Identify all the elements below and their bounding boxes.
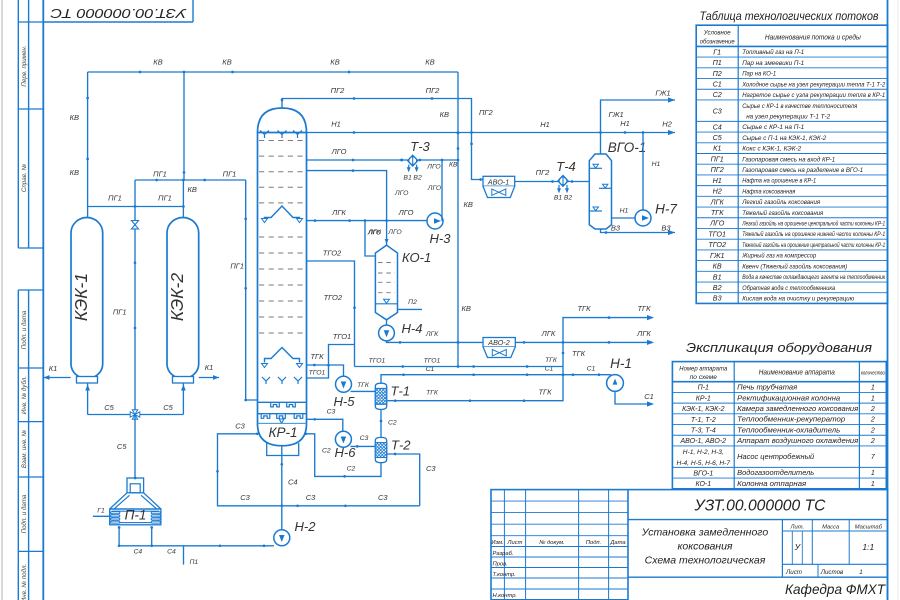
svg-text:ПГ1: ПГ1 [153,170,167,179]
svg-text:С3: С3 [240,493,250,502]
svg-text:Газопаровая смесь на вход КР-1: Газопаровая смесь на вход КР-1 [742,155,835,163]
wire ПГ2 АВО-1 to Т-4 to ВГО-1 [515,181,590,183]
КР-1 chevron collector upper [265,206,300,222]
wire ЛГК branch into КО-1 [365,221,375,256]
svg-text:Н-1: Н-1 [610,356,632,371]
svg-text:Камера замедленного коксования: Камера замедленного коксования [737,405,858,413]
wire В3 sour water out [601,229,676,233]
svg-text:С5: С5 [163,403,173,412]
svg-text:ТГО1: ТГО1 [424,358,441,365]
ВГО-1 internal weirs [589,167,602,169]
title block (основная надпись) [491,490,888,600]
wire П1 steam stub [183,546,185,565]
КР-1 bubble-cap tray 1 [258,401,307,403]
svg-text:Номер аппарата: Номер аппарата [679,366,727,373]
svg-text:ПГ2: ПГ2 [536,168,551,177]
svg-text:ТГО1: ТГО1 [309,370,326,377]
column КР-1 rectification column shell [258,108,307,424]
wire С3 from Т-2 to С3 header [387,454,420,506]
svg-text:КР-1: КР-1 [269,425,298,440]
svg-text:ТГО1: ТГО1 [333,332,351,341]
wire С2 Т-2 bottom back to КР-1 [307,434,382,477]
svg-text:В3: В3 [611,224,621,233]
svg-text:Т-3, Т-4: Т-3, Т-4 [691,427,716,434]
wire С1 cold feed from Н-1 [615,391,653,404]
svg-text:П1: П1 [190,559,199,566]
separator ВГО-1 water-gas separator [589,154,611,229]
svg-text:Кафедра ФМХТ: Кафедра ФМХТ [785,582,887,597]
svg-text:Т-2: Т-2 [391,438,411,453]
wire Н1 naphtha reflux line [307,132,676,134]
svg-text:ГЖ1: ГЖ1 [609,110,624,119]
svg-text:Пар на змеевики П-1: Пар на змеевики П-1 [742,60,804,67]
svg-text:С5: С5 [104,403,114,412]
svg-text:ТГК: ТГК [426,390,439,397]
svg-text:ЛГК: ЛГК [541,329,556,338]
КР-1 lower spray nozzles [262,377,270,384]
svg-text:С4: С4 [288,478,298,487]
svg-text:Г1: Г1 [713,47,721,56]
svg-text:ПГ1: ПГ1 [223,170,237,179]
svg-text:Таблица технологических потоко: Таблица технологических потоков [700,9,879,23]
svg-text:С5: С5 [117,442,127,451]
svg-text:ГЖ1: ГЖ1 [655,89,670,98]
svg-text:Н-3: Н-3 [430,231,452,246]
svg-text:Наименование аппарата: Наименование аппарата [759,370,835,377]
svg-text:П2: П2 [408,299,417,306]
svg-text:Масса: Масса [822,524,840,530]
pump Н-6 centrifugal [335,431,351,447]
valve on ПГ1 blowdown line [132,221,139,229]
wire ПГ1 riser to КР-1 feed inlet [246,180,258,400]
wire КВ drop to КЭК-1 overhead [87,72,89,207]
svg-text:1: 1 [871,395,875,402]
svg-text:КВ: КВ [440,110,449,119]
svg-text:Н-5: Н-5 [334,394,356,409]
svg-text:Н-6: Н-6 [335,445,357,460]
wire С1 from Т-1 top to Н-1 [381,375,611,384]
svg-text:УЗТ.00.000000 ТС: УЗТ.00.000000 ТС [694,498,826,515]
wire КВ drop to КЭК-2 overhead [183,72,185,180]
svg-text:КЭК-2: КЭК-2 [167,273,187,321]
svg-text:С3: С3 [306,493,316,502]
КР-1 trays middle section (dashed) [259,236,305,238]
wire КО-1 bottoms to Н-4 [386,320,388,325]
svg-text:ТГО2: ТГО2 [324,293,343,302]
wire ГЖ1 gas to compressor [601,100,676,154]
wire К1 coke outlet КЭК-1 [44,377,71,379]
air cooler АВО-2 [483,338,515,347]
svg-text:Инв. № дубл.: Инв. № дубл. [21,376,28,414]
svg-text:УЗТ.00.000000 ТС: УЗТ.00.000000 ТС [50,6,188,21]
svg-text:КВ: КВ [70,168,79,177]
vessel КЭК-1 coke drum [71,218,103,379]
wire С4 header to furnace П-1 [119,545,274,547]
svg-text:Подп.: Подп. [586,540,601,546]
svg-text:2: 2 [870,417,875,424]
svg-text:Справ. №: Справ. № [21,164,28,192]
svg-text:ТГК: ТГК [538,388,552,397]
svg-text:ПГ2: ПГ2 [711,165,724,174]
svg-text:Насос центробежный: Насос центробежный [737,453,814,461]
svg-text:Т-3: Т-3 [410,139,430,154]
wire Н-7 discharge riser [642,133,644,211]
svg-text:обозначение: обозначение [700,38,735,46]
svg-text:Т.контр.: Т.контр. [493,572,516,578]
svg-text:Сырье с КР-1 на П-1: Сырье с КР-1 на П-1 [742,124,804,131]
svg-text:Кокс с КЭК-1, КЭК-2: Кокс с КЭК-1, КЭК-2 [742,146,801,153]
КР-1 bottom head [258,424,307,446]
svg-text:ТГК: ТГК [357,382,370,389]
svg-text:В2: В2 [413,175,422,182]
wire КЭК-2 overhead riser [182,180,184,219]
svg-text:Т-4: Т-4 [556,159,576,174]
svg-text:П1: П1 [713,58,722,67]
svg-text:КВ: КВ [330,58,339,67]
svg-text:1:1: 1:1 [862,542,874,552]
frame border column lines [17,0,19,248]
vessel КЭК-2 coke drum [167,218,199,379]
svg-text:Масштаб: Масштаб [855,524,883,530]
svg-text:1: 1 [871,481,875,488]
wire КВ main drop (right) [457,72,459,367]
pump Н-4 centrifugal [379,325,395,341]
svg-text:В3: В3 [661,224,671,233]
heat exchanger Т-1 (recuperator) [375,383,386,409]
КР-1 bubble-cap tray 2 [258,413,307,415]
svg-text:ПГ1: ПГ1 [113,308,127,317]
svg-text:Теплообменник-охладитель: Теплообменник-охладитель [737,426,840,434]
frame cell: Инв. № дубл. [18,421,43,423]
svg-text:Перв. примен.: Перв. примен. [21,45,28,86]
page edge (left/right faint) [1,0,3,600]
wire С5 down to furnace П-1 [134,415,136,479]
svg-text:Подп. и дата: Подп. и дата [21,494,28,533]
svg-text:ПГ1: ПГ1 [711,154,724,163]
svg-text:ЛГК: ЛГК [331,208,346,217]
svg-text:Н-4, Н-5, Н-6, Н-7: Н-4, Н-5, Н-6, Н-7 [677,460,731,467]
КР-1 top spray nozzles [260,131,269,139]
svg-text:ГЖ1: ГЖ1 [710,251,725,260]
svg-text:ТГК: ТГК [637,304,651,313]
wire ПГ1 header from КЭК-1 [88,206,184,208]
svg-text:Пар на КО-1: Пар на КО-1 [742,71,776,78]
svg-text:Нафта коксованная: Нафта коксованная [742,188,795,195]
svg-text:Г1: Г1 [97,508,105,515]
frame cell: Подп. и дата (lower) [18,550,43,552]
svg-text:П2: П2 [713,69,722,78]
svg-text:Н-7: Н-7 [655,202,677,217]
svg-text:С1: С1 [587,366,596,373]
svg-text:В2: В2 [564,195,573,202]
svg-text:Лист: Лист [785,569,802,576]
svg-text:Водогазоотделитель: Водогазоотделитель [737,469,814,477]
svg-text:ТГО1: ТГО1 [369,358,386,365]
frame cell: Перв. примен. [18,21,43,23]
svg-text:ПГ1: ПГ1 [108,194,122,203]
svg-text:С3: С3 [426,464,436,473]
svg-text:Т-1, Т-2: Т-1, Т-2 [691,417,716,424]
svg-text:КО-1: КО-1 [695,481,711,488]
svg-text:Схема технологическая: Схема технологическая [645,555,766,567]
svg-text:Н-4: Н-4 [402,321,423,336]
svg-text:количество: количество [861,371,885,377]
svg-text:Топливный газ на П-1: Топливный газ на П-1 [742,48,804,56]
svg-text:Н1: Н1 [713,176,722,185]
svg-text:КЭК-1: КЭК-1 [71,273,91,321]
svg-text:Взам. инв. №: Взам. инв. № [21,430,28,469]
svg-text:Н.контр.: Н.контр. [493,593,518,599]
svg-text:С5: С5 [713,133,723,142]
svg-text:Нагретое сырье с узла рекупера: Нагретое сырье с узла рекуперации тепла … [742,92,885,99]
svg-text:Н1: Н1 [331,120,341,129]
svg-text:К1: К1 [49,364,58,373]
svg-text:КО-1: КО-1 [402,250,431,265]
svg-text:С4: С4 [133,549,142,556]
svg-text:Н2: Н2 [713,187,722,196]
4-way switch valve on С5 [130,410,140,420]
svg-text:КР-1: КР-1 [696,395,711,402]
svg-text:ВГО-1: ВГО-1 [693,470,713,477]
wire ЛГО draw to Т-3 / КВ [307,159,459,161]
pump Н-7 centrifugal [635,210,651,226]
svg-text:КЭК-1, КЭК-2: КЭК-1, КЭК-2 [682,406,725,413]
svg-text:ЛГО: ЛГО [426,164,441,171]
svg-text:Т-1: Т-1 [391,384,411,399]
wire ТГО2 pumparound draw [307,261,355,367]
svg-text:Сырье с КР-1 в качестве теплон: Сырье с КР-1 в качестве теплоносителя [742,103,857,110]
svg-text:К1: К1 [205,363,214,372]
svg-text:Теплообменник-рекуператор: Теплообменник-рекуператор [737,416,845,424]
pump Н-2 centrifugal [274,530,290,546]
svg-text:К1: К1 [713,144,721,153]
svg-text:С3: С3 [713,106,722,115]
svg-text:на узел рекуперации Т-1 Т-2: на узел рекуперации Т-1 Т-2 [746,114,830,121]
svg-text:Холодное сырье на узел рекупер: Холодное сырье на узел рекуперации тепла… [741,80,885,88]
svg-text:КВ: КВ [70,113,79,122]
svg-text:ПГ2: ПГ2 [426,86,441,95]
svg-text:ЛГО: ЛГО [394,190,409,197]
svg-text:Пров.: Пров. [493,561,508,567]
svg-text:С3: С3 [360,435,369,442]
top-left rotated document number box УЗТ.00.000000 ТС [43,21,193,23]
svg-text:АВО-1, АВО-2: АВО-1, АВО-2 [679,438,726,445]
svg-text:ЛГО: ЛГО [331,147,347,156]
svg-text:ЛГК: ЛГК [710,197,725,206]
svg-text:Н-1, Н-2, Н-3,: Н-1, Н-2, Н-3, [683,449,724,456]
svg-text:Легкий газойль коксования: Легкий газойль коксования [741,198,820,206]
svg-text:АВО-2: АВО-2 [487,338,509,347]
svg-text:Нафта на орошение в КР-1: Нафта на орошение в КР-1 [742,178,816,185]
svg-text:В2: В2 [713,283,722,292]
heat exchanger Т-4 (cooler) [558,176,568,187]
svg-text:Кислая вода на очистку и рекуп: Кислая вода на очистку и рекуперацию [742,294,854,302]
svg-text:ЛГК: ЛГК [367,229,381,236]
svg-text:ТГО1: ТГО1 [708,229,726,238]
svg-text:Наименования потока и среды: Наименования потока и среды [765,34,862,42]
svg-text:С2: С2 [713,90,722,99]
svg-text:КВ: КВ [222,58,231,67]
svg-text:2: 2 [870,438,875,445]
svg-text:КВ: КВ [188,185,197,194]
svg-text:Н1: Н1 [620,119,630,128]
svg-text:Н1: Н1 [620,208,629,215]
svg-text:Легкий газойль на орошение цен: Легкий газойль на орошение центральной ч… [741,220,885,228]
heat exchanger Т-3 (cooler) [408,155,418,166]
svg-text:С2: С2 [322,448,331,455]
svg-text:1: 1 [871,470,875,477]
wire Н-3 discharge riser to Т-3 line [441,160,443,221]
svg-text:коксования: коксования [677,541,732,553]
svg-text:ТГК: ТГК [310,352,324,361]
svg-text:С3: С3 [235,422,245,431]
КР-1 chevron collector lower [265,348,300,363]
svg-text:С2: С2 [388,420,397,427]
svg-text:В1: В1 [403,175,412,182]
svg-text:ЛГК: ЛГК [425,331,439,338]
svg-text:В3: В3 [713,294,722,303]
pump Н-1 centrifugal [607,375,624,392]
svg-text:Квенч (Тяжелый газойль коксова: Квенч (Тяжелый газойль коксования) [742,262,847,270]
pump Н-3 centrifugal [427,213,443,229]
wire С2 Т-1 bottom to Т-2 top [380,410,382,438]
svg-text:ТГК: ТГК [572,349,586,358]
svg-text:ПГ1: ПГ1 [230,262,244,271]
svg-text:Н2: Н2 [662,120,672,129]
svg-text:ПГ2: ПГ2 [331,86,346,95]
svg-text:АВО-1: АВО-1 [487,177,509,186]
pump Н-5 centrifugal [336,376,352,392]
svg-text:Колонна отпарная: Колонна отпарная [737,481,806,488]
svg-text:ВГО-1: ВГО-1 [608,140,646,155]
wire ТГО1 network line [355,366,564,368]
svg-text:Подп. и дата: Подп. и дата [21,310,28,349]
svg-text:Тяжелый газойль коксования: Тяжелый газойль коксования [742,209,823,217]
wire ПГ2 overhead from КР-1 to АВО-1 [282,99,483,180]
svg-text:ЛГО: ЛГО [427,185,442,192]
svg-text:В1: В1 [713,272,722,281]
svg-text:КВ: КВ [425,58,434,67]
svg-text:Газопаровая смесь на разделени: Газопаровая смесь на разделение в ВГО-1 [742,166,863,174]
svg-text:ПГ2: ПГ2 [479,108,494,117]
svg-text:С1: С1 [644,392,654,401]
svg-text:Н-2: Н-2 [295,519,317,534]
wire В1 В2 cooling water at Т-3 [408,165,410,171]
frame cell: Взам. инв. № [18,476,43,478]
wire С4 КР-1 bottoms to Н-2 [281,446,283,530]
svg-text:П-1: П-1 [698,385,709,392]
wire КВ quench header [88,71,458,73]
wire ЛГК draw / Н-3 suction [307,220,428,222]
svg-text:С4: С4 [167,549,176,556]
wire К1 coke outlet КЭК-2 [199,377,219,379]
frame cell: Подп. и дата (upper) [18,289,43,291]
air cooler АВО-1 [483,176,515,186]
svg-text:С4: С4 [713,122,722,131]
svg-text:Лит.: Лит. [790,524,805,530]
furnace П-1 [127,478,144,493]
svg-text:КВ: КВ [462,304,471,313]
svg-text:С1: С1 [713,79,722,88]
КР-1 skirt [267,443,299,456]
svg-text:ТГК: ТГК [577,304,591,313]
svg-text:КВ: КВ [464,200,473,209]
wire С3 draw to Н-6 [307,419,343,431]
wire Г1 fuel gas to П-1 [93,515,110,517]
svg-text:П-1: П-1 [125,508,147,523]
svg-text:С3: С3 [327,409,336,416]
svg-text:С2: С2 [347,466,356,473]
wire Н1 draw ВГО-1 to Н-7 [612,217,636,219]
wire С3 bottom circulation header [218,434,420,506]
svg-text:Тяжелый газойль на орошение ни: Тяжелый газойль на орошение нижней части… [742,230,885,238]
svg-text:КВ: КВ [153,58,162,67]
svg-text:ЛГО: ЛГО [709,219,725,228]
svg-text:Сырье с П-1 на КЭК-1, КЭК-2: Сырье с П-1 на КЭК-1, КЭК-2 [742,135,826,142]
wire ПГ1 blowdown line with valve to С5 [134,180,136,415]
svg-text:ЛГО: ЛГО [398,208,414,217]
svg-text:Листов: Листов [820,569,844,576]
svg-text:Экспликация оборудования: Экспликация оборудования [686,340,872,355]
svg-text:Условное: Условное [703,30,731,37]
wire ТГК Н-5 discharge to Т-1 [351,390,376,392]
stripper column КО-1 [375,245,397,320]
svg-text:ЛГО: ЛГО [387,229,402,236]
svg-text:№ докум.: № докум. [539,540,565,546]
wire ПГ1 collector header [135,179,246,181]
frame cell: Справ. № [18,247,43,249]
svg-text:1: 1 [871,385,875,392]
wire ТГК from Т-1 shell side out [387,318,653,401]
svg-text:Вода в качестве охлаждающего а: Вода в качестве охлаждающего агента на т… [742,273,886,281]
wire ЛГО circulating draw to КО-1 [307,171,387,245]
svg-text:Ректификационная колонна: Ректификационная колонна [737,395,840,402]
svg-text:ЛГК: ЛГК [636,329,651,338]
wire П2 steam to КО-1 [398,308,423,310]
svg-text:ПГ1: ПГ1 [158,194,172,203]
svg-text:Изм.: Изм. [491,540,503,546]
wire КЭК-1 overhead riser [87,207,89,219]
svg-text:ТГК: ТГК [711,208,724,217]
svg-text:Инв. № подл.: Инв. № подл. [21,564,28,600]
svg-text:Тяжелый газойль на орошение це: Тяжелый газойль на орошение центральной … [742,241,885,249]
svg-text:2: 2 [870,406,875,413]
wire ЛГК product line through АВО-2 [387,341,653,343]
svg-text:по схеме: по схеме [690,374,718,381]
svg-text:Жирный газ на компрессор: Жирный газ на компрессор [741,252,816,260]
svg-text:С3: С3 [378,493,388,502]
svg-text:КВ: КВ [713,262,722,271]
КР-1 trays upper section (dashed) [259,140,305,142]
svg-text:ТГО2: ТГО2 [323,249,342,258]
svg-text:2: 2 [870,427,875,434]
wire С5 header under КЭК drums [87,383,89,415]
svg-text:Установка замедленного: Установка замедленного [641,527,769,539]
svg-text:КВ: КВ [449,162,458,169]
svg-text:ТГО2: ТГО2 [708,240,726,249]
heat exchanger Т-2 (recuperator) [375,437,386,462]
svg-text:Аппарат воздушного охлаждения: Аппарат воздушного охлаждения [736,437,858,445]
П-1 coil symbols [111,512,120,514]
wire С3 Н-6 discharge to Т-2 [350,445,375,447]
svg-text:Печь трубчатая: Печь трубчатая [737,384,797,392]
svg-text:ТГК: ТГК [545,357,558,364]
svg-text:Н1: Н1 [652,161,661,168]
svg-text:1: 1 [859,569,862,576]
wire ТГО1 return into column [307,345,355,379]
svg-text:Дата: Дата [609,540,626,546]
wire ТГК draw to Н-5 [307,365,344,376]
